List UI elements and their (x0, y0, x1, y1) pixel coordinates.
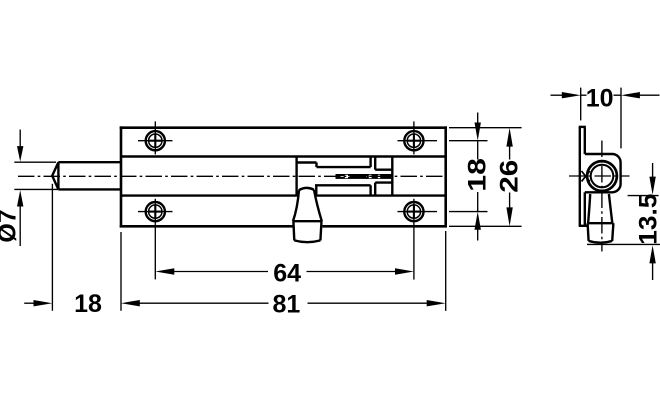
screw hole top-left (138, 121, 173, 154)
knob front view (293, 188, 323, 242)
side view centerline vertical (601, 141, 603, 252)
svg-text:18: 18 (74, 290, 102, 318)
dimension 81: arrows and line (121, 300, 446, 306)
front view plate outline (120, 126, 447, 227)
dimension 64 extension lines (155, 199, 414, 280)
side view centerline horizontal (569, 175, 630, 177)
screw hole top-right (398, 121, 438, 154)
dimension 13.5 extension lines (587, 196, 660, 245)
svg-text:18: 18 (463, 158, 491, 192)
dimension 18 right: extension lines (449, 141, 488, 212)
screw hole bottom-left (138, 202, 173, 221)
spring band (336, 174, 392, 179)
dimension 18 right: arrows and line (475, 113, 481, 241)
centerline front view (18, 175, 443, 177)
side view plate profile (579, 127, 588, 226)
dimension 18 left: extension lines (52, 184, 121, 311)
dimension 26 arrows and line (506, 128, 512, 227)
side view bolt circles (587, 161, 617, 191)
side view wrap seam X (582, 171, 590, 182)
screw hole bottom-right (398, 202, 438, 221)
bolt shaft (52, 162, 121, 189)
svg-text:Ø7: Ø7 (0, 209, 21, 242)
dimension 64 arrows and line (155, 268, 414, 274)
svg-text:26: 26 (495, 160, 523, 193)
barrel guide bottom edge (121, 194, 446, 196)
bolt mechanism internal lines (296, 157, 393, 196)
dimension 18 left: arrow and line (24, 300, 52, 306)
dimension Ø7 arrows (17, 130, 23, 247)
knob side view (588, 194, 614, 243)
dimension 13.5 arrows (649, 163, 655, 280)
dimension Ø7 extension lines (14, 162, 58, 189)
barrel guide top edge (121, 155, 446, 157)
svg-text:13.5: 13.5 (635, 194, 660, 245)
dimension 10 arrows and line (551, 92, 660, 98)
dimension 10 extension lines (581, 88, 621, 149)
dimension 81 extension line right (445, 231, 447, 311)
svg-text:10: 10 (586, 85, 614, 113)
side view barrel loop (585, 154, 621, 192)
svg-text:64: 64 (273, 260, 301, 288)
svg-text:81: 81 (272, 290, 300, 318)
dimension 26 extension lines (449, 128, 522, 227)
